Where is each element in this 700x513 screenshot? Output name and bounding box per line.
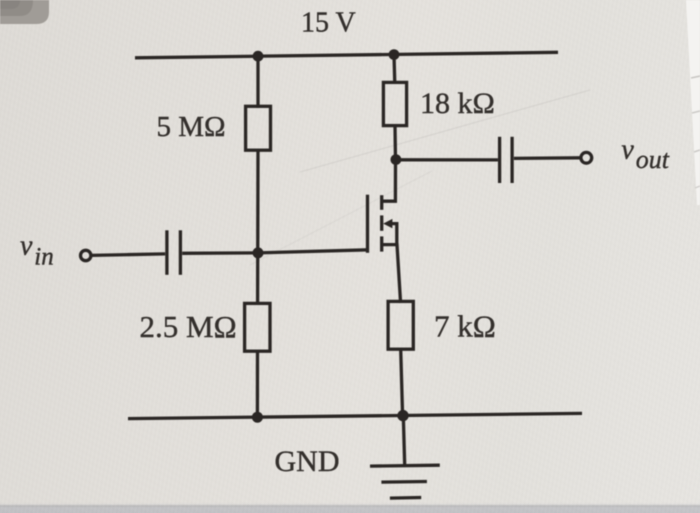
transistor Q1 nmos [368,160,401,303]
svg-text:2.5 MΩ: 2.5 MΩ [140,309,237,344]
node drain/output [391,154,402,165]
terminal vout [581,152,592,163]
wire right branch upper [392,55,396,84]
terminal vin [81,250,91,260]
wire output left [396,158,498,161]
channel bottom segment [380,236,383,251]
svg-text:v: v [621,135,634,166]
wire left branch lower [256,351,259,418]
wire input left [92,254,166,256]
body arrow line [391,224,397,245]
resistor R2 18 kohm [383,82,406,125]
capacitor C2 output [500,137,512,183]
resistor R3 2.5 Mohm [245,303,270,351]
wire top rail 15V [135,52,558,58]
node dot bottom right [397,410,408,421]
svg-text:15 V: 15 V [301,8,356,39]
node dot on rail (left branch) [253,51,264,62]
channel middle segment [380,215,383,230]
wire 7k to bottom rail [401,349,403,416]
svg-text:out: out [636,145,670,174]
body arrow head [383,219,392,228]
channel top segment [380,195,383,210]
node dot bottom left [252,412,263,423]
wire 18k to drain node [393,126,397,161]
svg-text:7 kΩ: 7 kΩ [434,309,496,344]
node dot on rail (right branch) [389,49,400,60]
wire input right to gate [182,250,368,254]
wire left branch upper [256,56,259,108]
svg-text:in: in [34,244,53,271]
node gate junction [253,247,264,258]
drain connection [382,160,396,201]
resistor R1 5 Mohm [246,106,271,150]
svg-text:18 kΩ: 18 kΩ [420,87,495,120]
resistor R4 7 kohm [388,301,413,349]
svg-text:5 MΩ: 5 MΩ [157,111,226,143]
svg-text:v: v [20,230,33,261]
capacitor C1 input [167,230,181,274]
gate bar [366,195,369,253]
wire output right [514,156,581,160]
source connection [382,245,401,303]
svg-text:GND: GND [275,445,340,478]
wire bottom rail [128,413,582,418]
ground [370,416,440,499]
wire left branch middle [256,150,260,305]
